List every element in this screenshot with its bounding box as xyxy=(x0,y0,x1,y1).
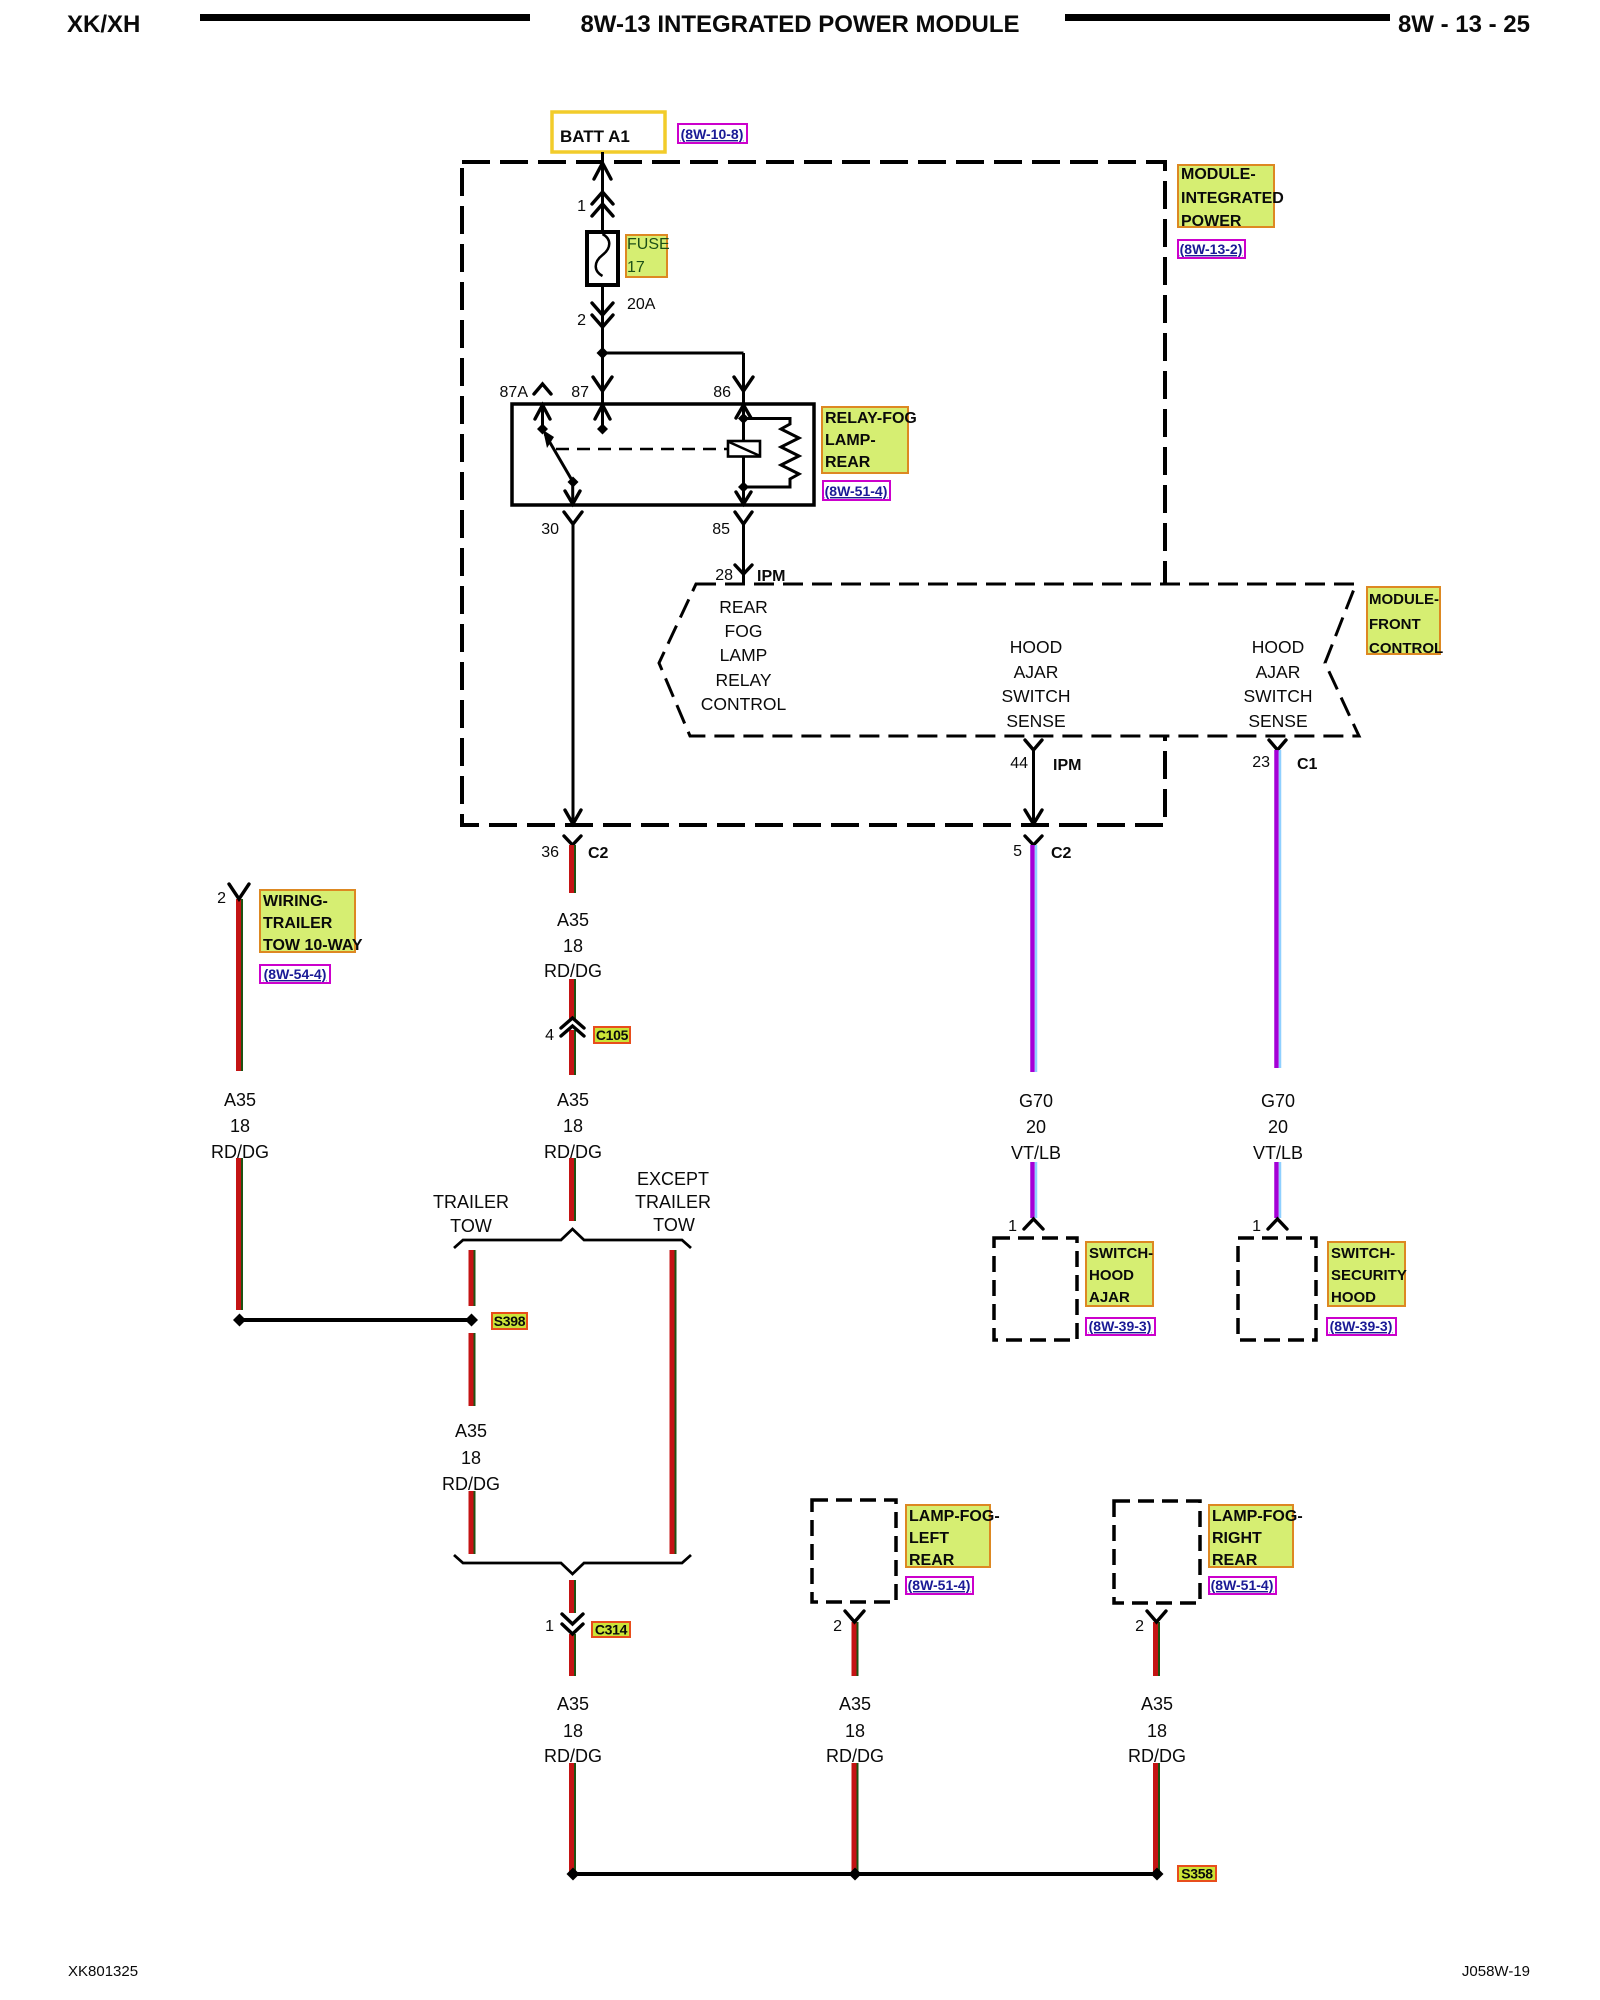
svg-text:SENSE: SENSE xyxy=(1006,711,1065,731)
svg-text:CONTROL: CONTROL xyxy=(1369,640,1443,657)
svg-text:30: 30 xyxy=(541,521,559,538)
svg-text:(8W-51-4): (8W-51-4) xyxy=(1211,1577,1274,1593)
svg-text:A35: A35 xyxy=(839,1694,871,1714)
svg-text:18: 18 xyxy=(563,936,583,956)
svg-text:J058W-19: J058W-19 xyxy=(1462,1963,1530,1980)
svg-text:18: 18 xyxy=(461,1448,481,1468)
svg-text:(8W-51-4): (8W-51-4) xyxy=(908,1577,971,1593)
svg-text:G70: G70 xyxy=(1019,1091,1053,1111)
svg-text:AJAR: AJAR xyxy=(1256,662,1301,682)
svg-text:XK/XH: XK/XH xyxy=(67,11,140,38)
svg-text:CONTROL: CONTROL xyxy=(701,694,787,714)
svg-text:MODULE-: MODULE- xyxy=(1181,166,1256,183)
svg-text:A35: A35 xyxy=(557,1694,589,1714)
svg-text:LAMP-: LAMP- xyxy=(825,432,876,449)
svg-text:XK801325: XK801325 xyxy=(68,1963,138,1980)
svg-text:TRAILER: TRAILER xyxy=(635,1192,711,1212)
svg-text:TOW: TOW xyxy=(653,1215,695,1235)
svg-text:4: 4 xyxy=(545,1027,554,1044)
svg-text:RD/DG: RD/DG xyxy=(544,1142,602,1162)
svg-text:87: 87 xyxy=(571,384,589,401)
svg-text:RELAY: RELAY xyxy=(715,670,771,690)
svg-text:(8W-39-3): (8W-39-3) xyxy=(1089,1318,1152,1334)
svg-text:RD/DG: RD/DG xyxy=(442,1474,500,1494)
svg-text:(8W-39-3): (8W-39-3) xyxy=(1330,1318,1393,1334)
svg-text:(8W-13-2): (8W-13-2) xyxy=(1180,241,1243,257)
svg-text:1: 1 xyxy=(577,198,586,215)
svg-text:HOOD: HOOD xyxy=(1010,637,1063,657)
svg-text:20: 20 xyxy=(1268,1117,1288,1137)
svg-text:18: 18 xyxy=(563,1721,583,1741)
svg-text:8W-13 INTEGRATED POWER MODULE: 8W-13 INTEGRATED POWER MODULE xyxy=(580,11,1019,38)
svg-text:FUSE: FUSE xyxy=(627,236,670,253)
svg-text:VT/LB: VT/LB xyxy=(1253,1143,1303,1163)
svg-text:C2: C2 xyxy=(1051,845,1072,862)
svg-text:18: 18 xyxy=(845,1721,865,1741)
svg-text:18: 18 xyxy=(230,1116,250,1136)
svg-text:2: 2 xyxy=(577,312,586,329)
svg-text:AJAR: AJAR xyxy=(1089,1289,1130,1306)
svg-text:EXCEPT: EXCEPT xyxy=(637,1169,709,1189)
svg-text:RD/DG: RD/DG xyxy=(544,961,602,981)
svg-text:HOOD: HOOD xyxy=(1331,1289,1376,1306)
svg-text:SECURITY: SECURITY xyxy=(1331,1267,1407,1284)
svg-text:RD/DG: RD/DG xyxy=(544,1746,602,1766)
svg-text:SWITCH: SWITCH xyxy=(1001,686,1070,706)
svg-text:G70: G70 xyxy=(1261,1091,1295,1111)
svg-text:23: 23 xyxy=(1252,754,1270,771)
svg-text:44: 44 xyxy=(1010,755,1028,772)
svg-text:1: 1 xyxy=(1008,1218,1017,1235)
svg-text:8W - 13 - 25: 8W - 13 - 25 xyxy=(1398,11,1530,38)
svg-text:TRAILER: TRAILER xyxy=(263,915,333,932)
svg-text:VT/LB: VT/LB xyxy=(1011,1143,1061,1163)
svg-text:RD/DG: RD/DG xyxy=(1128,1746,1186,1766)
svg-text:LEFT: LEFT xyxy=(909,1530,949,1547)
svg-text:C1: C1 xyxy=(1297,756,1318,773)
svg-text:(8W-10-8): (8W-10-8) xyxy=(681,126,744,142)
svg-text:BATT A1: BATT A1 xyxy=(560,127,630,146)
svg-text:(8W-51-4): (8W-51-4) xyxy=(825,483,888,499)
svg-text:SWITCH-: SWITCH- xyxy=(1331,1245,1395,1262)
svg-text:HOOD: HOOD xyxy=(1252,637,1305,657)
svg-text:IPM: IPM xyxy=(1053,757,1081,774)
svg-text:REAR: REAR xyxy=(1212,1552,1258,1569)
svg-text:18: 18 xyxy=(563,1116,583,1136)
svg-text:C314: C314 xyxy=(595,1622,628,1638)
svg-text:1: 1 xyxy=(545,1618,554,1635)
svg-text:2: 2 xyxy=(833,1618,842,1635)
svg-text:SWITCH-: SWITCH- xyxy=(1089,1245,1153,1262)
svg-text:20: 20 xyxy=(1026,1117,1046,1137)
svg-text:28: 28 xyxy=(715,567,733,584)
svg-text:A35: A35 xyxy=(557,910,589,930)
svg-text:IPM: IPM xyxy=(757,568,785,585)
svg-text:C2: C2 xyxy=(588,845,609,862)
svg-text:S398: S398 xyxy=(494,1313,526,1329)
svg-text:HOOD: HOOD xyxy=(1089,1267,1134,1284)
svg-text:RELAY-FOG: RELAY-FOG xyxy=(825,410,917,427)
svg-text:RD/DG: RD/DG xyxy=(211,1142,269,1162)
svg-text:AJAR: AJAR xyxy=(1014,662,1059,682)
svg-text:18: 18 xyxy=(1147,1721,1167,1741)
svg-text:REAR: REAR xyxy=(719,597,768,617)
svg-text:85: 85 xyxy=(712,521,730,538)
svg-text:LAMP-FOG-: LAMP-FOG- xyxy=(1212,1508,1303,1525)
svg-text:A35: A35 xyxy=(455,1421,487,1441)
svg-text:2: 2 xyxy=(217,890,226,907)
svg-text:(8W-54-4): (8W-54-4) xyxy=(264,966,327,982)
svg-text:A35: A35 xyxy=(1141,1694,1173,1714)
svg-text:36: 36 xyxy=(541,844,559,861)
svg-text:REAR: REAR xyxy=(909,1552,955,1569)
svg-text:SENSE: SENSE xyxy=(1248,711,1307,731)
svg-text:A35: A35 xyxy=(224,1090,256,1110)
svg-text:S358: S358 xyxy=(1181,1866,1213,1882)
svg-text:MODULE-: MODULE- xyxy=(1369,591,1439,608)
svg-text:FRONT: FRONT xyxy=(1369,616,1421,633)
svg-text:FOG: FOG xyxy=(725,621,763,641)
svg-text:REAR: REAR xyxy=(825,454,871,471)
svg-text:87A: 87A xyxy=(500,384,529,401)
svg-text:TRAILER: TRAILER xyxy=(433,1192,509,1212)
svg-text:2: 2 xyxy=(1135,1618,1144,1635)
svg-text:5: 5 xyxy=(1013,843,1022,860)
svg-text:WIRING-: WIRING- xyxy=(263,893,328,910)
svg-text:TOW 10-WAY: TOW 10-WAY xyxy=(263,937,363,954)
svg-text:LAMP-FOG-: LAMP-FOG- xyxy=(909,1508,1000,1525)
svg-text:TOW: TOW xyxy=(450,1216,492,1236)
svg-text:LAMP: LAMP xyxy=(720,645,768,665)
svg-text:A35: A35 xyxy=(557,1090,589,1110)
svg-text:20A: 20A xyxy=(627,296,656,313)
svg-text:17: 17 xyxy=(627,259,645,276)
svg-text:1: 1 xyxy=(1252,1218,1261,1235)
svg-text:POWER: POWER xyxy=(1181,213,1242,230)
svg-text:C105: C105 xyxy=(596,1027,629,1043)
svg-text:86: 86 xyxy=(713,384,731,401)
svg-text:RD/DG: RD/DG xyxy=(826,1746,884,1766)
svg-text:INTEGRATED: INTEGRATED xyxy=(1181,190,1284,207)
svg-text:SWITCH: SWITCH xyxy=(1243,686,1312,706)
svg-text:RIGHT: RIGHT xyxy=(1212,1530,1262,1547)
